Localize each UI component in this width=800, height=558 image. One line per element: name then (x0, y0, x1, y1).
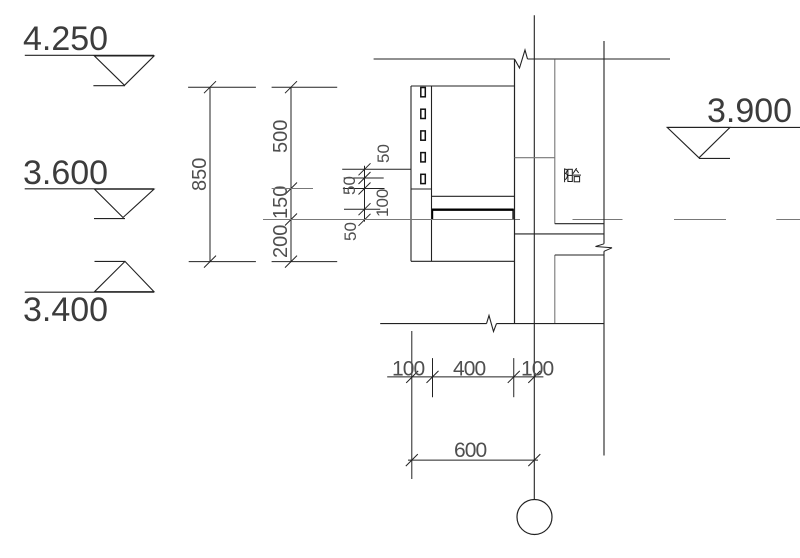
masonry hatch square 4 (421, 153, 426, 162)
masonry hatch square 1 (421, 88, 426, 97)
svg-text:4.250: 4.250 (23, 20, 108, 58)
small chain extension line b (344, 177, 384, 179)
parapet top edge (411, 85, 515, 87)
bottom dim extension line x=432.5 (432, 358, 434, 397)
level symbol 3.600 (25, 189, 154, 219)
dimension line 500/150/200 (285, 81, 297, 267)
small dimension chain 50/50/100/50 (359, 163, 371, 226)
dimension line 100/400/100 (387, 371, 543, 383)
wall line A x=514.5 (514, 59, 516, 324)
dimension chain extension line bottom (189, 261, 338, 263)
level symbol 3.400 (inverted) (25, 261, 154, 292)
window sill bottom edge (432, 195, 515, 197)
wall axis line x=534.3 (533, 15, 535, 499)
svg-text:150: 150 (270, 186, 292, 219)
balcony slab mid (515, 233, 605, 235)
svg-text:500: 500 (270, 120, 292, 153)
facade line x=604 upper (603, 41, 605, 244)
small chain extension line c (343, 188, 385, 190)
masonry hatch square 2 (421, 109, 426, 118)
boundary line at level 150 (272, 188, 313, 190)
masonry hatch square 5 (421, 174, 426, 183)
dimension line 600 (406, 454, 541, 466)
detail bottom edge (411, 260, 515, 262)
svg-text:50: 50 (374, 144, 393, 163)
roof top line with break (374, 50, 670, 68)
parapet left edge (410, 86, 412, 261)
bottom dim extension line x=513.75 (513, 358, 515, 397)
svg-text:850: 850 (189, 158, 211, 191)
svg-text:100: 100 (521, 357, 554, 380)
dimension chain extension line top (188, 86, 337, 88)
svg-text:100: 100 (392, 357, 425, 380)
svg-text:50: 50 (340, 176, 359, 195)
level symbol 4.250 (25, 55, 154, 85)
balcony slab bottom (555, 254, 604, 256)
dimension line 850 (204, 81, 216, 267)
small chain extension line d (344, 208, 380, 210)
svg-text:3.900: 3.900 (707, 92, 792, 130)
masonry hatch square 3 (421, 131, 426, 140)
wall tie line y=157.7 (515, 157, 555, 159)
svg-text:600: 600 (454, 439, 487, 462)
balcony label 阳台 (565, 168, 581, 182)
level symbol 3.900 (667, 127, 800, 158)
svg-text:50: 50 (341, 222, 360, 241)
svg-text:3.600: 3.600 (23, 154, 108, 192)
bottom dim extension line x=411.8 (411, 331, 413, 479)
balcony slab top (555, 223, 604, 225)
small chain extension line a (342, 168, 411, 170)
svg-text:400: 400 (453, 357, 486, 380)
flashing thick bar (432, 209, 514, 219)
facade line x=604 lower (603, 251, 605, 455)
svg-text:200: 200 (270, 225, 292, 258)
wall line B lower x=554.8 (554, 255, 556, 324)
svg-text:100: 100 (373, 189, 392, 217)
axis bubble circle (517, 500, 552, 535)
parapet inner edge (431, 86, 433, 261)
wall line B upper x=554.8 (554, 60, 556, 224)
level line 3.600 dashed centerline (263, 219, 800, 221)
break symbol on facade line (596, 244, 613, 252)
hatch strip bottom (411, 188, 432, 190)
svg-text:3.400: 3.400 (23, 291, 108, 329)
lower wall step line with break (380, 316, 604, 332)
